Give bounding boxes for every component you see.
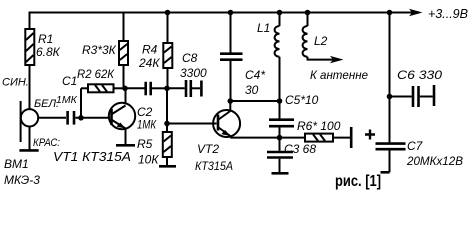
node C6 junction [387, 94, 393, 100]
svg-text:КТ315А: КТ315А [195, 159, 233, 173]
svg-text:С1: С1 [62, 74, 77, 88]
wire top supply rail [29, 12, 415, 14]
capacitor C8 [167, 51, 207, 97]
svg-text:СИН.: СИН. [2, 77, 29, 89]
wire emitter VT2 [229, 136, 231, 138]
resistor R2 [77, 67, 125, 118]
node collector VT2 [228, 98, 234, 104]
microphone BM1 MKE-3 [2, 77, 78, 188]
resistor R4 [138, 13, 172, 89]
resistor R1 [25, 13, 60, 110]
capacitor C4 [220, 13, 265, 102]
capacitor C7 electrolytic [365, 130, 463, 173]
node rail-R4 [165, 10, 171, 16]
svg-text:С6 330: С6 330 [397, 68, 442, 82]
transistor VT2 KT315A [195, 101, 240, 173]
svg-text:L1: L1 [257, 21, 270, 35]
node emitter VT2 / R6 / C3 [277, 135, 283, 141]
node R4-C2-C8-R5 [164, 86, 170, 92]
wire base VT2 [167, 123, 217, 125]
svg-text:С8: С8 [182, 51, 198, 65]
node rail-C7 [387, 10, 393, 16]
svg-text:С7: С7 [407, 139, 424, 153]
node base VT1 / C1-R2 junction [78, 115, 84, 121]
svg-text:С5*10: С5*10 [285, 93, 319, 107]
capacitor C2 [125, 82, 167, 132]
svg-text:ВМ1: ВМ1 [4, 157, 29, 171]
svg-text:+3...9В: +3...9В [428, 7, 468, 21]
capacitor C1 [62, 74, 110, 125]
svg-text:R4: R4 [142, 43, 158, 57]
svg-text:24К: 24К [138, 56, 160, 70]
capacitor C5 [269, 93, 319, 138]
capacitor C3 [267, 138, 316, 174]
arrow +3...9V supply [409, 9, 423, 16]
svg-text:К антенне: К антенне [310, 68, 368, 82]
svg-text:С3 68: С3 68 [284, 142, 316, 156]
node collector VT1 [122, 86, 128, 92]
svg-text:30: 30 [245, 83, 259, 97]
svg-text:рис. [1]: рис. [1] [335, 173, 381, 190]
svg-text:С4*: С4* [245, 68, 265, 82]
svg-text:6.8К: 6.8К [36, 45, 61, 59]
svg-text:VT2: VT2 [197, 142, 219, 156]
svg-text:МКЭ-3: МКЭ-3 [4, 173, 40, 187]
resistor R5 [137, 88, 176, 166]
capacitor C6 [390, 13, 443, 143]
svg-text:1МК: 1МК [137, 118, 157, 132]
transistor VT1 KT315A [53, 88, 135, 164]
svg-text:L2: L2 [314, 34, 328, 48]
resistor R6 [280, 119, 352, 148]
svg-text:R5: R5 [137, 137, 153, 151]
svg-text:R6* 100: R6* 100 [297, 119, 341, 133]
node base VT2 [164, 121, 170, 127]
svg-text:R3*3К: R3*3К [82, 43, 117, 57]
svg-text:КРАС:: КРАС: [33, 137, 60, 149]
node L1-C5 [277, 98, 283, 104]
node rail-L1 [277, 10, 283, 16]
resistor R3 [82, 13, 128, 89]
svg-text:20МКх12В: 20МКх12В [406, 154, 463, 168]
node rail-L2 [305, 10, 311, 16]
inductor L2 [303, 13, 369, 83]
svg-text:10К: 10К [138, 153, 159, 167]
svg-text:VT1 КТ315А: VT1 КТ315А [53, 149, 131, 164]
node rail-C4 [228, 10, 234, 16]
svg-text:R2 62К: R2 62К [77, 67, 115, 81]
inductor L1 [257, 13, 280, 102]
svg-text:3300: 3300 [180, 66, 207, 80]
svg-text:R1: R1 [38, 32, 53, 46]
wire collector VT2 to L1 [230, 100, 279, 102]
svg-text:1МК: 1МК [56, 94, 78, 106]
